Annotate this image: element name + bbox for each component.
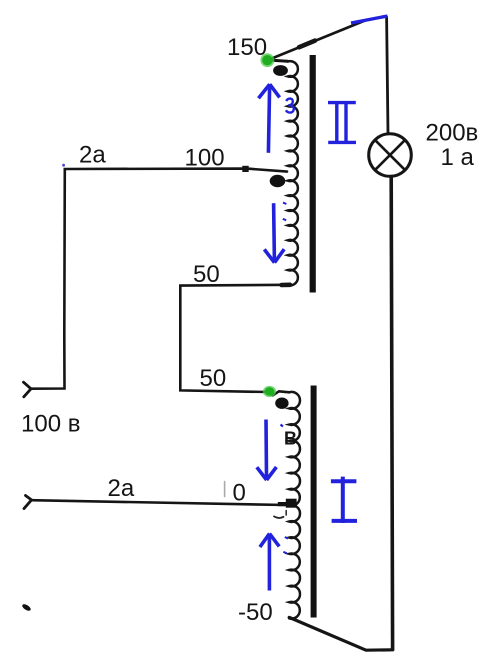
svg-text:100: 100: [185, 145, 225, 172]
svg-text:150: 150: [227, 34, 267, 61]
svg-text:200в: 200в: [426, 120, 479, 147]
svg-text:2a: 2a: [79, 142, 106, 169]
svg-text:-50: -50: [238, 599, 273, 626]
svg-text:50: 50: [193, 261, 220, 288]
svg-text:B: B: [284, 429, 297, 449]
svg-text:100 в: 100 в: [21, 411, 80, 438]
svg-text:1 а: 1 а: [441, 144, 475, 171]
svg-text:0: 0: [233, 480, 246, 507]
svg-text:2a: 2a: [108, 475, 135, 502]
svg-text:50: 50: [200, 365, 227, 392]
